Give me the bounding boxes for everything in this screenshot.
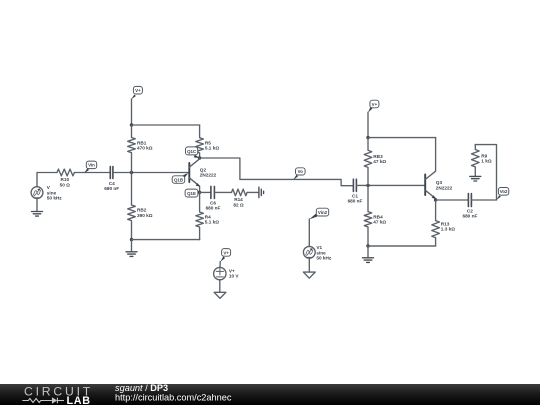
svg-text:5.1 kΩ: 5.1 kΩ	[205, 219, 219, 224]
resistor R14	[232, 189, 248, 196]
svg-text:50 kHz: 50 kHz	[316, 256, 332, 261]
svg-text:680 nF: 680 nF	[348, 199, 363, 204]
svg-text:470 kΩ: 470 kΩ	[137, 145, 153, 150]
resistor R13	[368, 200, 439, 246]
svg-text:Vo: Vo	[298, 169, 304, 174]
label RB3 47 kohm	[373, 154, 386, 164]
label R9 1 kohm	[481, 154, 492, 164]
capacitor C6	[211, 186, 215, 198]
svg-text:Vin2: Vin2	[318, 210, 328, 215]
label V sine 50 kHz	[47, 185, 63, 201]
node junction bottom1	[130, 238, 133, 241]
label R5 5.1 kohm	[205, 140, 219, 150]
node junction base2	[366, 184, 369, 187]
wire rail stage2	[368, 137, 436, 139]
svg-text:V+: V+	[372, 102, 378, 107]
svg-text:2N2222: 2N2222	[436, 185, 453, 190]
resistor RB4	[364, 185, 372, 246]
ground earth stage2	[363, 246, 374, 262]
label RB2 390 kohm	[137, 208, 153, 218]
voltage source V (sine)	[31, 187, 43, 199]
resistor RB1	[128, 125, 136, 173]
resistor R4	[196, 192, 204, 239]
node junction rail1	[130, 123, 133, 126]
net flag Vo2	[496, 188, 508, 201]
svg-text:47 kΩ: 47 kΩ	[373, 159, 386, 164]
wire R14 to ground	[247, 191, 259, 193]
node junction emitter2	[434, 198, 437, 201]
svg-text:V+: V+	[135, 88, 141, 93]
transistor Q2	[189, 158, 200, 192]
wire C2 to Vo2 node	[471, 199, 496, 201]
svg-text:Q1C: Q1C	[187, 149, 197, 154]
label Q3 2N2222	[436, 180, 453, 190]
label C1 680 nF	[348, 194, 363, 204]
svg-text:1.3 kΩ: 1.3 kΩ	[441, 226, 455, 231]
voltage source V1 (sine)	[303, 219, 315, 272]
svg-text:Vo2: Vo2	[500, 189, 508, 194]
node junction collector1	[198, 156, 201, 159]
capacitor C4	[110, 167, 113, 179]
svg-text:5.1 kΩ: 5.1 kΩ	[205, 145, 219, 150]
svg-text:82 Ω: 82 Ω	[233, 202, 244, 207]
capacitor C1	[353, 179, 356, 191]
net flag V+ (supply source)	[220, 249, 230, 262]
resistor R10	[57, 169, 74, 176]
transistor Q3	[425, 138, 436, 200]
net flag V+ (stage 2)	[368, 100, 379, 113]
label V1 sine 50 kHz	[316, 245, 332, 261]
net flag Vo	[293, 168, 305, 180]
svg-text:http://circuitlab.com/c2ahnec: http://circuitlab.com/c2ahnec	[115, 393, 232, 403]
resistor RB2	[128, 173, 136, 240]
svg-text:1 kΩ: 1 kΩ	[481, 159, 492, 164]
ground earth rotated	[259, 187, 264, 197]
label R13 1.3 kohm	[441, 221, 455, 231]
net flag Q1B	[172, 173, 188, 183]
node junction base1	[130, 171, 133, 174]
svg-text:50 kHz: 50 kHz	[47, 196, 63, 201]
net flag Vin2	[309, 208, 328, 219]
svg-text:sine: sine	[316, 250, 326, 255]
wire V+ riser stage1	[131, 99, 133, 125]
wire V top to R10	[37, 173, 57, 187]
resistor R5	[196, 125, 204, 158]
logo schematic resistor diode	[22, 397, 64, 403]
svg-text:LAB: LAB	[67, 395, 91, 405]
voltage source V+ 10V	[214, 262, 226, 293]
wire R10 to C4	[74, 172, 110, 174]
wire V+ riser stage2	[367, 112, 369, 137]
wire collector1 to C1 (Vo run)	[200, 158, 354, 186]
wire bottom rail stage2	[368, 245, 436, 247]
svg-text:V+: V+	[223, 250, 229, 255]
label C4 680 nF	[104, 181, 119, 191]
footer bar	[0, 384, 540, 405]
svg-text:Q1E: Q1E	[187, 191, 196, 196]
ground triangle supply	[214, 292, 226, 298]
net flag Q1C	[186, 147, 200, 158]
wire R9 branch	[475, 145, 496, 200]
node junction emitter1	[198, 191, 201, 194]
ground earth source V	[32, 199, 43, 217]
svg-text:47 kΩ: 47 kΩ	[373, 220, 386, 225]
resistor R9	[471, 145, 479, 177]
label RB4 47 kohm	[373, 214, 386, 224]
ground earth stage1	[126, 240, 137, 257]
label C6 680 nF	[206, 200, 221, 210]
net flag Vin	[84, 161, 97, 173]
capacitor C2	[468, 194, 471, 207]
net flag Q1E	[185, 189, 200, 197]
label R10 50 ohm	[60, 177, 71, 187]
svg-text:10 V: 10 V	[229, 274, 240, 279]
svg-text:2N2222: 2N2222	[200, 172, 217, 177]
label C2 680 nF	[462, 209, 477, 219]
svg-text:680 nF: 680 nF	[206, 205, 221, 210]
node junction bottom2	[366, 244, 369, 247]
wire bottom rail stage1	[132, 239, 200, 241]
svg-text:680 nF: 680 nF	[104, 186, 119, 191]
svg-text:390 kΩ: 390 kΩ	[137, 213, 153, 218]
label R4 5.1 kohm	[205, 214, 219, 224]
ground earth R9	[470, 176, 481, 181]
wire C1 to base2	[356, 184, 425, 186]
resistor RB3	[364, 138, 372, 186]
wire C6 to R14	[214, 191, 231, 193]
svg-text:Q1B: Q1B	[174, 177, 183, 182]
node junction rail2	[366, 136, 369, 139]
wire C4 to base node	[113, 172, 189, 174]
label Q2 2N2222	[200, 167, 217, 177]
ground triangle V1	[303, 272, 315, 278]
svg-text:50 Ω: 50 Ω	[60, 182, 71, 187]
net flag V+ (stage 1)	[131, 86, 142, 99]
svg-text:sgaunt / DP3: sgaunt / DP3	[115, 383, 168, 393]
label R14 82 ohm	[233, 197, 244, 207]
wire rail stage1	[132, 124, 200, 126]
svg-text:Vin: Vin	[88, 163, 95, 168]
wire emitter2 to C2	[436, 199, 469, 201]
label V+ 10 V	[229, 269, 240, 279]
svg-text:680 nF: 680 nF	[462, 214, 477, 219]
label RB1 470 kohm	[137, 140, 153, 150]
wire emitter1 to C6	[200, 191, 211, 193]
